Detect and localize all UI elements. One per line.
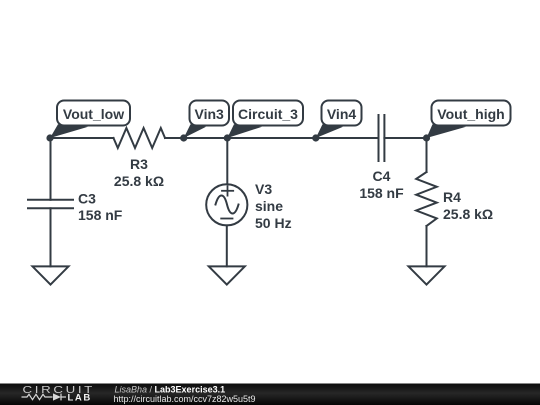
wire xyxy=(50,208,52,266)
svg-text:25.8 kΩ: 25.8 kΩ xyxy=(443,206,493,222)
svg-text:158 nF: 158 nF xyxy=(359,185,404,201)
capacitor C4 xyxy=(379,115,385,161)
svg-text:50 Hz: 50 Hz xyxy=(255,215,292,231)
svg-text:LAB: LAB xyxy=(68,393,92,404)
node label box Vin4 xyxy=(322,101,362,126)
wire xyxy=(165,137,378,139)
svg-text:Vout_low: Vout_low xyxy=(63,106,124,122)
svg-text:Circuit_3: Circuit_3 xyxy=(238,106,298,122)
svg-text:R3: R3 xyxy=(130,156,148,172)
svg-text:C4: C4 xyxy=(373,168,391,184)
wire xyxy=(226,138,228,184)
svg-text:Vin3: Vin3 xyxy=(195,106,225,122)
node Vout_high dot xyxy=(423,134,430,141)
wire xyxy=(384,137,426,139)
node label box Circuit_3 xyxy=(233,101,303,126)
svg-text:Vout_high: Vout_high xyxy=(437,106,504,122)
svg-text:158 nF: 158 nF xyxy=(78,207,123,223)
svg-text:http://circuitlab.com/ccv7z82w: http://circuitlab.com/ccv7z82w5u5t9 xyxy=(114,394,256,404)
svg-text:C3: C3 xyxy=(78,190,96,206)
CircuitLab logo diode triangle xyxy=(53,393,61,400)
node label box Vout_high xyxy=(432,101,511,126)
voltage source V3 xyxy=(206,184,247,225)
node Vout_low dot xyxy=(46,134,53,141)
node label box Vin3 xyxy=(190,101,230,126)
CircuitLab logo diode bar xyxy=(60,394,62,401)
ground xyxy=(33,266,69,284)
resistor R3 xyxy=(114,128,166,148)
node Vin4 flag tail xyxy=(316,124,343,138)
node Vout_low flag tail xyxy=(50,124,88,138)
wire xyxy=(426,226,428,266)
svg-text:Vin4: Vin4 xyxy=(327,106,357,122)
node Vin3 dot xyxy=(180,134,187,141)
CircuitLab logo resistor squiggle xyxy=(22,394,67,401)
node Vin3 flag tail xyxy=(184,124,206,138)
node Circuit_3 flag tail xyxy=(227,124,262,138)
resistor R4 xyxy=(416,172,437,226)
wire xyxy=(50,138,52,200)
ground xyxy=(209,266,245,284)
svg-text:25.8 kΩ: 25.8 kΩ xyxy=(114,173,164,189)
ground xyxy=(409,266,445,284)
svg-text:V3: V3 xyxy=(255,181,272,197)
svg-text:sine: sine xyxy=(255,198,283,214)
svg-text:R4: R4 xyxy=(443,189,461,205)
node Circuit_3 dot xyxy=(224,134,231,141)
node Vin4 dot xyxy=(312,134,319,141)
node Vout_high flag tail xyxy=(427,124,467,138)
wire xyxy=(426,138,428,172)
node label box Vout_low xyxy=(57,101,130,126)
capacitor C3 xyxy=(28,200,73,209)
wire xyxy=(50,137,114,139)
wire xyxy=(226,225,228,266)
